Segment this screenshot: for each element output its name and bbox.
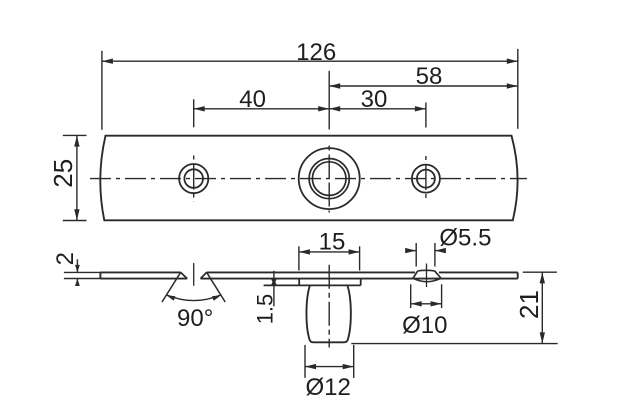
dimple dome top line: [418, 269, 435, 272]
hole H2 right inner circle: [417, 170, 435, 188]
dim 10 arrow right: [431, 301, 442, 306]
dim 2 line below: [76, 279, 78, 286]
side view bar right end edge: [517, 272, 519, 278]
angle 90 arrow right: [212, 295, 221, 301]
angle 90 arrow left: [166, 295, 175, 301]
dim 15 line: [299, 251, 360, 253]
center boss middle circle: [309, 159, 349, 199]
side view bar bottom edge segments: [100, 278, 517, 280]
svg-text:Ø10: Ø10: [402, 312, 447, 339]
dim 21 tick top: [523, 271, 557, 273]
svg-text:40: 40: [239, 86, 266, 113]
dim 12 extension line right: [353, 345, 355, 378]
dim 40 extension line left: [193, 99, 195, 127]
dim 126 extension line left: [101, 51, 103, 130]
svg-text:15: 15: [319, 229, 346, 256]
dim 21 line: [541, 272, 543, 343]
boss flange bottom line with 1.5 extension tick: [264, 284, 361, 286]
dim 5.5 arrow right-pointing: [405, 248, 416, 253]
horizontal center line (top view): [90, 178, 527, 180]
dim 15 extension line left: [298, 246, 300, 270]
side view bar top edge segments: [100, 271, 517, 273]
dim 12 line: [305, 366, 354, 368]
hole H2 vertical center line: [425, 156, 427, 201]
dim 2 arrow down: [75, 265, 80, 273]
dim 12 arrow right: [343, 364, 354, 369]
dim 58 arrow left: [329, 83, 340, 88]
svg-text:58: 58: [416, 63, 443, 90]
dim 40 line: [194, 108, 330, 110]
center boss inner circle: [312, 162, 346, 196]
svg-text:30: 30: [361, 86, 388, 113]
dim 2 tick bottom: [64, 278, 102, 280]
dim 1.5 arrow up: [271, 279, 276, 285]
svg-text:21: 21: [514, 290, 544, 319]
pin outline (side view): [306, 286, 350, 343]
dimple center line: [426, 264, 428, 288]
dim 25 tick top: [63, 134, 87, 136]
dim 25 line: [76, 136, 78, 221]
dim 10 line: [411, 303, 442, 305]
dim 1.5 arrow down: [271, 279, 276, 285]
dim 5.5 extension line left: [415, 243, 417, 267]
dim 126 extension line right: [517, 49, 519, 129]
dim 40 arrow left: [194, 106, 205, 111]
svg-text:1.5: 1.5: [253, 294, 278, 325]
angle 90 arc: [166, 295, 221, 301]
plate outline (top view): [100, 136, 517, 221]
angle 90 line right: [207, 272, 226, 302]
dim 126 arrow right: [507, 59, 518, 64]
pin center line: [328, 265, 330, 348]
dim 30 arrow right: [415, 106, 426, 111]
dim 21 tick bottom: [351, 343, 557, 345]
hole H1 vertical center line: [193, 156, 195, 202]
dim 10 arrow left: [411, 301, 422, 306]
boss flange left edge: [298, 279, 300, 286]
dim 15 arrow right: [349, 249, 360, 254]
dim 15 extension line right: [359, 246, 361, 270]
dim 21 arrow down: [540, 332, 545, 343]
angle 90 line left: [162, 272, 181, 302]
dimple under arc: [414, 279, 441, 282]
dim 25 arrow top: [74, 136, 79, 147]
dim 40 arrow right: [318, 106, 329, 111]
dim 21 arrow up: [540, 272, 545, 283]
hole H2 right outer circle: [412, 165, 440, 193]
svg-text:126: 126: [296, 39, 336, 66]
svg-text:25: 25: [48, 159, 78, 188]
center boss hole outer circle: [299, 148, 360, 209]
hole H1 left (countersunk) outer circle: [179, 164, 208, 193]
dim 10 extension line left: [410, 284, 412, 308]
dim 25 arrow bottom: [74, 209, 79, 220]
dim 58 arrow right: [507, 83, 518, 88]
dim 30 line: [329, 108, 426, 110]
dim 5.5 line left tail: [405, 250, 416, 252]
countersink center line: [193, 263, 195, 286]
dim 126 arrow left: [102, 59, 113, 64]
dim 5.5 extension line right: [434, 243, 436, 267]
boss flange right edge: [360, 279, 362, 286]
countersink side slants: [181, 272, 207, 278]
center hole vertical center line: [328, 146, 330, 213]
svg-text:2: 2: [52, 252, 79, 265]
dimple dome side slants: [413, 271, 441, 279]
dim 1.5 line: [273, 271, 275, 307]
dim 58 extension line center: [328, 71, 330, 130]
svg-text:Ø12: Ø12: [306, 374, 351, 401]
dim 2 line above: [76, 259, 78, 272]
svg-text:90°: 90°: [177, 305, 213, 332]
dim 15 arrow left: [299, 249, 310, 254]
dim 2 tick top: [64, 271, 102, 273]
dim 30 arrow left: [329, 106, 340, 111]
dim 12 arrow left: [305, 364, 316, 369]
dim 5.5 line right tail: [435, 250, 445, 252]
dim 30 extension line right: [425, 103, 427, 128]
side view bar left end edge: [99, 272, 101, 278]
dim 5.5 arrow left-pointing: [435, 248, 446, 253]
dim 58 line: [329, 85, 518, 87]
dim 25 tick bottom: [63, 220, 87, 222]
dim 12 extension line left: [304, 345, 306, 378]
dim 10 extension line right: [441, 284, 443, 308]
hole H1 left inner circle: [184, 169, 203, 188]
dim 2 arrow up: [75, 279, 80, 287]
svg-text:Ø5.5: Ø5.5: [439, 224, 491, 251]
dim 126 line: [102, 60, 518, 62]
